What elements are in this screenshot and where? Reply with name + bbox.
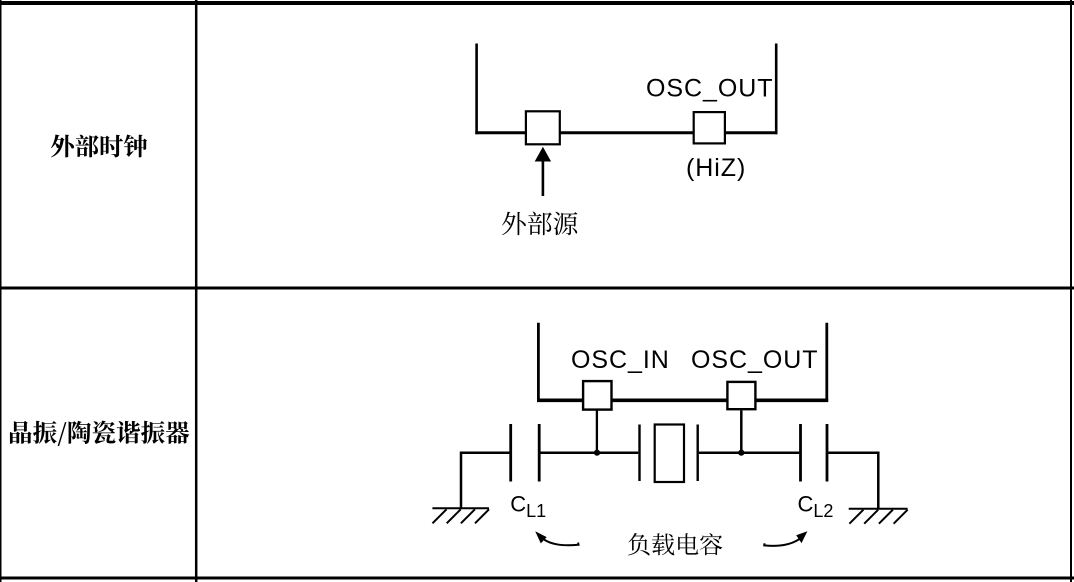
chip edge (crystal oscillator) (537, 323, 828, 402)
wire crystal to CL2 (through node B) (699, 451, 799, 454)
ground (left) (432, 508, 489, 523)
wire ground to CL1 (461, 453, 510, 509)
junction node B (738, 450, 744, 456)
callout arrow right (to CL2) (764, 531, 807, 546)
ground (right) (849, 509, 908, 524)
junction node A (594, 450, 600, 456)
capacitor CL1 (511, 424, 540, 482)
svg-text:OSC_OUT: OSC_OUT (691, 346, 819, 374)
wire CL2 to ground (828, 453, 878, 509)
svg-text:OSC_IN: OSC_IN (571, 346, 670, 374)
row title 外部时钟 (51, 134, 147, 157)
svg-text:OSC_OUT: OSC_OUT (646, 75, 774, 103)
chip edge (external clock) (475, 44, 777, 135)
pin OSC_IN (583, 381, 611, 410)
row title 晶振/陶瓷谐振器 (10, 421, 189, 446)
wire OSC_OUT pin to node B (740, 410, 743, 453)
wire OSC_IN pin to node A (596, 410, 598, 453)
pin OSC_OUT (crystal) (727, 382, 755, 409)
arrow: external source into pin (535, 147, 551, 196)
wire CL1 to crystal (through node A) (540, 451, 638, 454)
pin OSC_OUT (694, 112, 725, 143)
crystal X1 (640, 425, 698, 483)
label 负载电容 (628, 533, 722, 555)
label 外部源 (502, 212, 577, 236)
pin: external clock input (526, 111, 560, 144)
callout arrow left (to CL1) (535, 531, 578, 545)
svg-text:(HiZ): (HiZ) (686, 154, 746, 182)
capacitor CL2 (801, 424, 828, 482)
